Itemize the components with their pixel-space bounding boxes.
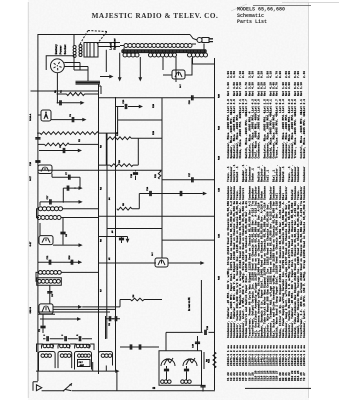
svg-text:List 6.5: List 6.5 [293,99,297,113]
svg-text:Socket, Mica .0005 Mfd. 400: Socket, Mica .0005 Mfd. 400 [302,111,306,158]
svg-text:Net 7.10: Net 7.10 [239,82,242,96]
svg-text:Resistor: Resistor [284,186,288,200]
svg-text:MODELS 65,66,680: MODELS 65,66,680 [237,7,285,13]
svg-text:0.40: 0.40 [242,71,245,78]
svg-text:Net 3.90: Net 3.90 [288,82,291,96]
svg-text:Condense: Condense [263,186,267,200]
svg-text:List 1.7: List 1.7 [244,99,248,113]
svg-text:Choke .1: Choke .1 [250,168,254,182]
svg-text:7.80: 7.80 [297,71,300,78]
svg-text:Net 1.50: Net 1.50 [264,82,267,96]
svg-text:6A5-G: 6A5-G [29,307,32,314]
svg-text:Condenser: Condenser [302,166,306,182]
svg-text:Socket .1: Socket .1 [235,166,239,182]
svg-text:Shield .1: Shield .1 [281,166,285,182]
svg-text:21959-1 2 ea: 21959-1 2 ea [303,345,306,366]
svg-text:4.50: 4.50 [233,71,236,78]
svg-text:List 6.9: List 6.9 [256,99,260,113]
svg-text:T2 27: T2 27 [303,372,306,381]
svg-text:Net 1.90: Net 1.90 [227,82,230,96]
svg-text:List 1.3: List 1.3 [281,99,285,113]
svg-text:Condenser, Mica .0005 Mfd.: Condenser, Mica .0005 Mfd. [256,113,260,158]
svg-text:4.10: 4.10 [270,71,273,78]
svg-text:G-27: G-27 [30,241,32,247]
svg-text:Trans., Mica .0005 Mfd. 400: Trans., Mica .0005 Mfd. 400 [275,111,279,158]
svg-text:G-24-A: G-24-A [29,113,32,121]
svg-text:Battery: Battery [54,44,58,55]
svg-text:Power: Power [59,45,63,55]
svg-text:Condenser: Condenser [296,166,300,182]
svg-text:4.30: 4.30 [251,71,254,78]
svg-text:Net 4.30: Net 4.30 [251,82,254,96]
svg-text:List 4.5: List 4.5 [232,99,236,113]
svg-text:Net 6.70: Net 6.70 [276,82,279,96]
svg-text:Socket: Socket [63,45,67,55]
svg-text:G-27: G-27 [30,175,32,181]
svg-text:in rear on W.: in rear on W. [189,297,191,311]
svg-text:8.00: 8.00 [279,71,282,78]
svg-text:Parts List: Parts List [237,19,267,25]
svg-text:Control: Control [241,188,245,200]
svg-text:List 2.4: List 2.4 [302,99,306,113]
svg-text:Condense: Condense [302,186,306,200]
svg-text:0.20: 0.20 [260,71,263,78]
svg-text:Choke, Mica .0005 Mfd. 400V: Choke, Mica .0005 Mfd. 400V [238,111,242,158]
svg-text:Coil .1: Coil .1 [266,170,270,182]
svg-text:3.90: 3.90 [288,71,291,78]
svg-text:List 4.1: List 4.1 [269,99,273,113]
svg-text:Schematic: Schematic [237,13,264,19]
svg-text:MAJESTIC RADIO & TELEV. CO.: MAJESTIC RADIO & TELEV. CO. [92,12,219,20]
svg-text:2.40: 2.40 [303,71,306,78]
svg-text:Speaker: Speaker [112,37,116,50]
svg-text:Condenser, Elect. 16 Mfd. 150: Condenser, Elect. 16 Mfd. 150 V. w/Mtg. … [302,201,306,338]
svg-text:Trans., Mica .0005 Mfd. 400: Trans., Mica .0005 Mfd. 400 [293,111,297,158]
svg-text:G-?: G-? [180,84,182,88]
svg-text:Net 1.10: Net 1.10 [300,82,303,96]
svg-text:G-?: G-? [152,252,154,256]
